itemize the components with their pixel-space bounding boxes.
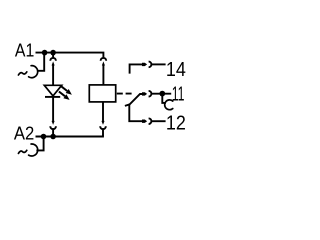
wire LED cathode <box>52 97 54 121</box>
svg-text:A2: A2 <box>14 123 34 143</box>
svg-text:12: 12 <box>166 112 186 135</box>
AC mark tilde at A1 <box>18 72 26 75</box>
wire LED anode <box>52 65 54 85</box>
LED light arrow 1 <box>61 86 72 94</box>
LED cathode bar <box>45 96 60 98</box>
plug-in connector socket (chevron) at LED top <box>50 53 56 61</box>
plug-in connector socket (chevron) at coil top <box>101 58 107 61</box>
node junction dot A2-LED <box>50 134 56 140</box>
svg-text:11: 11 <box>172 83 185 106</box>
plug-in connector socket on 11 line <box>149 91 152 97</box>
clamp terminal 11 (cage clamp arc) <box>165 100 173 110</box>
plug-in connector socket (chevron) at coil bottom <box>100 126 106 129</box>
fixed NO contact stub to terminal 14 <box>130 64 143 73</box>
plug-in connector socket (chevron) at LED bottom <box>50 126 56 129</box>
wire 11 clamp stub <box>162 94 166 103</box>
plug-in connector pin at LED bottom <box>52 121 55 125</box>
LED light arrow 2 <box>59 92 70 100</box>
LED indicator diode triangle <box>44 85 61 96</box>
wire socket stub to A2 rail <box>52 130 54 137</box>
plug-in connector pin on 11 line <box>142 92 147 95</box>
plug-in connector pin at coil bottom <box>101 121 104 125</box>
wire coil return <box>102 102 104 121</box>
wire coil feed <box>102 65 104 85</box>
wire to label 11 <box>151 93 171 95</box>
AC mark tilde at A2 <box>18 150 26 153</box>
wire to label 14 <box>151 63 165 65</box>
plug-in connector socket on 14 line <box>149 62 152 68</box>
wire A2 clamp drop <box>36 137 43 151</box>
wire A1 clamp drop <box>37 53 44 71</box>
relay coil K1 <box>89 85 115 102</box>
svg-text:14: 14 <box>166 58 186 81</box>
wire socket stub to A2 rail corner <box>102 130 104 137</box>
plug-in connector pin on 12 line <box>142 120 147 123</box>
clamp terminal A2 (cage clamp arc) <box>29 144 38 156</box>
svg-text:A1: A1 <box>15 41 34 61</box>
node junction dot A1-clamp <box>42 50 48 56</box>
fixed NC contact stub to terminal 12 <box>129 104 142 121</box>
wire A1 rail <box>36 53 104 58</box>
wire A2 rail <box>36 136 104 138</box>
plug-in connector socket on 12 line <box>149 118 152 124</box>
plug-in connector pin at LED top <box>52 61 55 65</box>
plug-in connector pin at coil top <box>102 61 105 65</box>
plug-in connector pin on 14 line <box>142 63 147 66</box>
wire to label 12 <box>151 120 165 122</box>
clamp terminal A1 (cage clamp arc) <box>29 66 38 78</box>
contact armature (common, shown in NC position) <box>125 94 142 106</box>
mechanical link dashed line coil to armature <box>117 93 132 95</box>
node junction dot A2-clamp <box>41 134 47 140</box>
node junction dot terminal 11 <box>159 91 165 97</box>
node junction dot A1-LED <box>50 50 56 56</box>
